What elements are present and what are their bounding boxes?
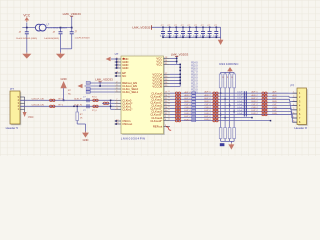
resistor R64 series3 bbox=[262, 104, 265, 107]
net label box out9 bbox=[192, 119, 196, 121]
svg-text:CLN_C: CLN_C bbox=[205, 107, 212, 109]
wire CLKout4 path bbox=[170, 117, 252, 119]
wire cap bank top rail bbox=[151, 26, 220, 28]
svg-text:Header 5: Header 5 bbox=[6, 126, 19, 130]
port arrow CLKout_EN bbox=[78, 84, 83, 88]
pins U1 right side bbox=[164, 57, 170, 59]
capacitor C4 series bbox=[86, 98, 88, 102]
wire CLKout0 path bbox=[170, 92, 289, 94]
wire strap gnd rail bbox=[221, 140, 235, 142]
resistor R1 bbox=[50, 99, 53, 102]
power port VCC at P1 bbox=[23, 112, 27, 117]
svg-text:0.1uF: 0.1uF bbox=[237, 104, 243, 106]
svg-text:DLP_C: DLP_C bbox=[185, 110, 192, 112]
net label box REFout_EN bbox=[86, 82, 90, 85]
net label box out4 bbox=[192, 104, 196, 106]
pins connector P1 bbox=[20, 96, 25, 98]
svg-text:BLN_C: BLN_C bbox=[185, 101, 192, 103]
svg-text:VCC: VCC bbox=[23, 13, 30, 17]
capacitor C3 bbox=[71, 28, 73, 32]
resistor R48 series bbox=[175, 116, 178, 119]
wire REFout_EN bbox=[87, 82, 115, 84]
connector P2 body bbox=[298, 89, 308, 126]
wire P1 unused pins bbox=[24, 97, 26, 109]
resistor R3 bbox=[93, 99, 96, 102]
svg-text:R18 0: R18 0 bbox=[191, 74, 198, 76]
svg-text:ALN_C: ALN_C bbox=[185, 94, 192, 97]
svg-text:DLP_C: DLP_C bbox=[205, 110, 212, 112]
resistor R67 series3 bbox=[262, 113, 265, 116]
svg-text:0.1uF: 0.1uF bbox=[187, 35, 193, 37]
svg-text:0: 0 bbox=[169, 91, 170, 93]
resistor R57 series2 bbox=[213, 113, 216, 116]
svg-text:2: 2 bbox=[293, 96, 294, 98]
resistor R51 series2 bbox=[213, 95, 216, 98]
net label box out1 bbox=[192, 95, 196, 97]
svg-text:DLP_C: DLP_C bbox=[252, 110, 259, 112]
svg-text:CLKin1*: CLKin1* bbox=[122, 107, 133, 111]
svg-text:R21 0: R21 0 bbox=[191, 83, 198, 85]
svg-text:ELN_C: ELN_C bbox=[185, 119, 192, 121]
svg-text:CLKout4*: CLKout4* bbox=[150, 119, 163, 123]
svg-text:0: 0 bbox=[169, 94, 170, 96]
net label box out8 bbox=[192, 116, 196, 118]
resistor R54 series2 bbox=[213, 104, 216, 107]
svg-text:P?: P? bbox=[291, 84, 295, 88]
svg-text:0: 0 bbox=[169, 100, 170, 102]
svg-text:DLP_: DLP_ bbox=[273, 110, 279, 112]
svg-text:0.1uF: 0.1uF bbox=[173, 35, 179, 37]
resistor R26 pullup bbox=[229, 72, 231, 74]
svg-text:0.1uF: 0.1uF bbox=[237, 101, 243, 103]
wire CLKin0 path bbox=[20, 99, 115, 101]
svg-text:LMK_VDD33: LMK_VDD33 bbox=[95, 78, 113, 82]
svg-text:R15 0: R15 0 bbox=[191, 65, 198, 67]
capacitor C1 bbox=[26, 28, 28, 32]
net label box CLKin_SEL0 bbox=[86, 88, 90, 91]
svg-text:U?: U? bbox=[115, 52, 119, 56]
no-connect EP NC bbox=[115, 72, 117, 74]
svg-text:Header 8: Header 8 bbox=[294, 126, 307, 130]
svg-text:R24 100K/NC: R24 100K/NC bbox=[219, 62, 239, 66]
svg-text:6: 6 bbox=[293, 112, 294, 114]
svg-text:0.1uF: 0.1uF bbox=[237, 107, 243, 109]
net label box out7 bbox=[192, 113, 196, 115]
resistor R30 pulldown bbox=[219, 128, 222, 139]
resistor R46 series bbox=[175, 110, 178, 113]
svg-text:0: 0 bbox=[169, 115, 170, 117]
svg-text:0.1uF: 0.1uF bbox=[160, 35, 166, 37]
svg-text:VCC: VCC bbox=[156, 63, 162, 67]
svg-text:CLN_C: CLN_C bbox=[185, 107, 192, 109]
ferrite bead L1 bbox=[35, 24, 42, 31]
svg-text:LMK_VDD33: LMK_VDD33 bbox=[132, 25, 150, 29]
svg-text:R22 0: R22 0 bbox=[191, 86, 198, 88]
svg-text:10uF6.3V0603 (0805): 10uF6.3V0603 (0805) bbox=[16, 38, 38, 40]
svg-text:LMK_VDD33: LMK_VDD33 bbox=[171, 53, 189, 57]
svg-text:0: 0 bbox=[169, 106, 170, 108]
svg-text:BLN_C: BLN_C bbox=[252, 101, 259, 103]
svg-text:CLP_: CLP_ bbox=[273, 104, 279, 106]
svg-text:ALN_C: ALN_C bbox=[205, 94, 212, 97]
svg-text:0.1uF: 0.1uF bbox=[167, 35, 173, 37]
wire GND pin bus bbox=[116, 59, 118, 68]
resistor R40 series bbox=[175, 92, 178, 95]
svg-text:ALP_C: ALP_C bbox=[185, 91, 192, 94]
svg-text:DLN_: DLN_ bbox=[273, 113, 279, 115]
capacitor C12 decoupling bbox=[176, 27, 178, 29]
wire CLKout0* path bbox=[170, 95, 289, 97]
svg-text:VCC: VCC bbox=[28, 115, 34, 119]
wire CLKin_SEL0 bbox=[87, 88, 115, 90]
op-amp U1 LMK00304 body bbox=[122, 57, 165, 135]
wire CLKout1 path bbox=[170, 98, 290, 100]
svg-text:GND: GND bbox=[83, 138, 89, 142]
svg-text:0.1uF: 0.1uF bbox=[200, 35, 206, 37]
svg-text:Ferrite100ohm_0603: Ferrite100ohm_0603 bbox=[47, 26, 68, 29]
wire cap bank bottom rail bbox=[163, 36, 221, 38]
resistor R44 series bbox=[175, 104, 178, 107]
svg-text:CLN_C: CLN_C bbox=[252, 107, 259, 109]
svg-text:ALP_C: ALP_C bbox=[205, 91, 212, 94]
svg-text:ALN_: ALN_ bbox=[273, 94, 279, 97]
resistor R52 series2 bbox=[213, 98, 216, 101]
wire CLKout_EN bbox=[85, 85, 115, 87]
junction bbox=[73, 106, 75, 108]
svg-text:ELP_C: ELP_C bbox=[205, 116, 212, 118]
wire CLKout2* path bbox=[170, 107, 291, 109]
wire VCC drop bbox=[26, 23, 28, 28]
wire CLKout4* path bbox=[170, 120, 271, 122]
net label box out0 bbox=[192, 92, 196, 94]
resistor R59 series2 bbox=[213, 119, 216, 122]
ground cap bank bbox=[220, 27, 222, 38]
capacitor C18 decoupling bbox=[216, 27, 218, 29]
svg-text:REFout: REFout bbox=[153, 125, 163, 129]
wire CLKout3* path bbox=[170, 114, 292, 116]
resistor R55 series2 bbox=[213, 107, 216, 110]
svg-text:CLP_C: CLP_C bbox=[205, 104, 212, 106]
wire CLKout3 path bbox=[170, 111, 292, 113]
ground bbox=[26, 53, 28, 54]
svg-text:R17 0: R17 0 bbox=[191, 71, 198, 73]
resistor R66 series3 bbox=[262, 110, 265, 113]
svg-text:CLKI_P_CN: CLKI_P_CN bbox=[32, 98, 44, 100]
svg-text:0.1uF: 0.1uF bbox=[180, 35, 186, 37]
svg-text:5: 5 bbox=[293, 108, 294, 110]
svg-text:NC: NC bbox=[68, 94, 72, 96]
svg-text:OSCout: OSCout bbox=[122, 122, 132, 126]
svg-text:GND: GND bbox=[60, 77, 66, 81]
net label box out3 bbox=[192, 101, 196, 103]
wire CLKout2 path bbox=[170, 104, 291, 106]
svg-text:CLP_C: CLP_C bbox=[185, 104, 192, 106]
svg-text:BLN_: BLN_ bbox=[273, 101, 279, 103]
junction bbox=[26, 27, 28, 29]
svg-text:R16 0: R16 0 bbox=[191, 68, 198, 70]
resistor R5 termination bbox=[103, 102, 106, 105]
svg-text:1uF0603(0805): 1uF0603(0805) bbox=[44, 38, 59, 40]
svg-text:CLKI_P: CLKI_P bbox=[74, 98, 82, 100]
svg-text:BLN_C: BLN_C bbox=[205, 101, 212, 103]
svg-text:0: 0 bbox=[169, 109, 170, 111]
svg-text:0: 0 bbox=[169, 112, 170, 114]
net label box out5 bbox=[192, 107, 196, 109]
capacitor C15 decoupling bbox=[196, 27, 198, 29]
capacitor C16 decoupling bbox=[202, 27, 204, 29]
svg-text:ALP_C: ALP_C bbox=[252, 91, 259, 94]
svg-text:0.1uF: 0.1uF bbox=[237, 95, 243, 97]
resistor R53 series2 bbox=[213, 101, 216, 104]
svg-text:BLP_C: BLP_C bbox=[252, 98, 259, 100]
resistor R60 series3 bbox=[262, 92, 265, 95]
svg-text:1: 1 bbox=[293, 92, 294, 94]
wire VCC bus bbox=[176, 56, 178, 64]
ground bottom middle bbox=[85, 131, 87, 132]
capacitor C13 decoupling bbox=[182, 27, 184, 29]
svg-text:R23 0: R23 0 bbox=[191, 89, 198, 91]
svg-text:LMK_VDD33: LMK_VDD33 bbox=[63, 12, 81, 16]
capacitor C14 decoupling bbox=[189, 27, 191, 29]
svg-text:BLP_C: BLP_C bbox=[205, 98, 212, 100]
resistor R42 series bbox=[175, 98, 178, 101]
svg-text:R? 1: R? 1 bbox=[59, 98, 64, 100]
resistor R41 series bbox=[175, 95, 178, 98]
port arrow GND pins bbox=[106, 57, 111, 61]
svg-text:R20 0: R20 0 bbox=[191, 80, 198, 82]
svg-text:P?: P? bbox=[10, 87, 14, 91]
capacitor C17 decoupling bbox=[209, 27, 211, 29]
ground bbox=[60, 53, 62, 54]
resistor R43 series bbox=[175, 101, 178, 104]
svg-text:BLP_C: BLP_C bbox=[185, 98, 192, 100]
resistor R27 pullup bbox=[233, 72, 235, 74]
resistor R58 series2 bbox=[213, 116, 216, 119]
wire CLKout1* path bbox=[170, 101, 290, 103]
resistor R50 series2 bbox=[213, 92, 216, 95]
svg-text:NC: NC bbox=[122, 74, 126, 78]
svg-text:0: 0 bbox=[169, 103, 170, 105]
svg-text:ALN_C: ALN_C bbox=[252, 94, 259, 97]
no-connect REFout bbox=[166, 127, 171, 131]
resistor R61 series3 bbox=[262, 95, 265, 98]
svg-text:0.1uF: 0.1uF bbox=[193, 35, 199, 37]
resistor R45 series bbox=[175, 107, 178, 110]
svg-text:0: 0 bbox=[169, 97, 170, 99]
svg-text:0.1uF: 0.1uF bbox=[237, 92, 243, 94]
junction bbox=[71, 27, 73, 29]
resistor R25 pullup bbox=[224, 72, 226, 74]
resistor R62 series3 bbox=[262, 98, 265, 101]
resistor R31 pulldown bbox=[224, 128, 227, 139]
svg-text:CLP_C: CLP_C bbox=[252, 104, 259, 106]
svg-text:CLN_: CLN_ bbox=[273, 107, 279, 109]
pins connector P2 bbox=[293, 92, 298, 94]
wire VCCO bus bbox=[179, 64, 181, 86]
svg-text:R19 0: R19 0 bbox=[191, 77, 198, 79]
svg-text:DLN_C: DLN_C bbox=[205, 113, 212, 115]
junction bbox=[60, 27, 62, 29]
svg-text:VCCOB: VCCOB bbox=[152, 85, 162, 89]
resistor R2 bbox=[50, 105, 53, 108]
svg-text:GND: GND bbox=[122, 66, 128, 70]
svg-text:7: 7 bbox=[293, 116, 294, 118]
no-connect OSC pins bbox=[115, 120, 117, 122]
connector P1 body bbox=[11, 92, 21, 125]
svg-text:8: 8 bbox=[293, 121, 294, 123]
resistor R32 pulldown bbox=[228, 128, 231, 139]
power port pullup arrow bbox=[227, 67, 233, 71]
wire termination bbox=[110, 100, 112, 109]
svg-text:CLKI_N_CN: CLKI_N_CN bbox=[32, 104, 44, 106]
resistor R47 series bbox=[175, 113, 178, 116]
wire VCC rail bbox=[22, 27, 71, 29]
svg-text:LMK00304PW: LMK00304PW bbox=[121, 136, 146, 140]
resistor R6 pulldown bbox=[76, 106, 78, 112]
svg-text:0.1uF: 0.1uF bbox=[237, 110, 243, 112]
junction straps bbox=[220, 92, 222, 94]
resistor R65 series3 bbox=[262, 107, 265, 110]
svg-text:3: 3 bbox=[293, 100, 294, 102]
capacitor C11 decoupling bbox=[169, 27, 171, 29]
svg-text:R? 1: R? 1 bbox=[59, 104, 64, 106]
background grid bbox=[0, 0, 320, 156]
svg-text:CLKin_SEL1: CLKin_SEL1 bbox=[122, 90, 138, 94]
svg-text:R14 0: R14 0 bbox=[191, 62, 198, 64]
resistor R24 pullup bbox=[220, 72, 222, 74]
capacitor C10 decoupling bbox=[162, 27, 164, 29]
svg-text:DLN_C: DLN_C bbox=[185, 113, 192, 115]
ground strap network bbox=[230, 143, 232, 144]
wire CLKin_SEL1 bbox=[87, 91, 115, 93]
resistor R56 series2 bbox=[213, 110, 216, 113]
net label box out6 bbox=[192, 110, 196, 112]
pins U1 left side bbox=[115, 58, 121, 60]
svg-text:ELP_C: ELP_C bbox=[185, 116, 192, 118]
svg-text:ELN_C: ELN_C bbox=[205, 119, 212, 121]
net label box CLKin_SEL1 bbox=[86, 91, 90, 94]
svg-text:0.1uF: 0.1uF bbox=[237, 113, 243, 115]
resistor R49 series bbox=[175, 119, 178, 122]
svg-text:4: 4 bbox=[293, 104, 294, 106]
capacitor C5 series bbox=[86, 104, 88, 108]
net label box out2 bbox=[192, 98, 196, 100]
net label box strap bbox=[220, 143, 225, 146]
capacitor C2 bbox=[60, 28, 62, 32]
wire CLKin1 path bbox=[20, 105, 115, 107]
svg-text:1.0uF6.3V0603: 1.0uF6.3V0603 bbox=[75, 38, 91, 40]
svg-text:0.1uF: 0.1uF bbox=[237, 98, 243, 100]
resistor R4 bbox=[93, 105, 96, 108]
svg-text:CLKI_N: CLKI_N bbox=[74, 104, 82, 106]
svg-text:DLN_C: DLN_C bbox=[252, 113, 259, 115]
resistor R33 pulldown bbox=[233, 128, 236, 139]
svg-text:0.1uF: 0.1uF bbox=[207, 35, 213, 37]
resistor R63 series3 bbox=[262, 101, 265, 104]
svg-text:0: 0 bbox=[169, 118, 170, 120]
svg-text:0.1uF: 0.1uF bbox=[213, 35, 219, 37]
